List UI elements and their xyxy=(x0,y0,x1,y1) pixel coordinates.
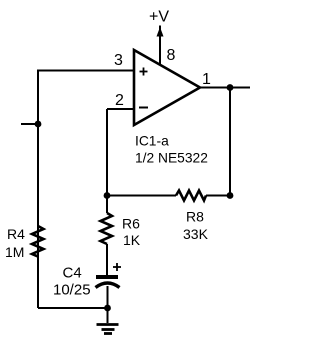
wire feedback vertical xyxy=(229,88,231,196)
svg-text:1/2 NE5322: 1/2 NE5322 xyxy=(135,151,208,166)
node junction dot output xyxy=(227,84,234,91)
wire left vertical xyxy=(37,70,39,309)
svg-text:IC1-a: IC1-a xyxy=(135,134,169,149)
op-amp - input marking xyxy=(139,107,148,109)
node junction dot left xyxy=(35,121,42,128)
wire output pin1 xyxy=(200,87,250,89)
wire pin2 (- input) xyxy=(107,108,134,110)
wire input stub xyxy=(21,123,38,125)
capacitor + sign xyxy=(113,263,121,271)
svg-text:1M: 1M xyxy=(5,244,24,260)
svg-text:1K: 1K xyxy=(123,232,141,248)
ground xyxy=(107,308,109,323)
svg-text:R4: R4 xyxy=(7,226,25,242)
wire node row y=195.5 xyxy=(107,195,176,197)
wire pin8 / +V arrow xyxy=(159,26,161,65)
wire pin2 vertical xyxy=(106,109,108,196)
svg-text:10/25: 10/25 xyxy=(53,282,91,299)
svg-text:R8: R8 xyxy=(186,209,204,225)
resistor R4 zigzag xyxy=(32,226,44,257)
svg-text:8: 8 xyxy=(167,47,176,64)
svg-text:R6: R6 xyxy=(122,216,140,232)
svg-text:3: 3 xyxy=(114,52,123,69)
op-amp U1 IC1-a triangle xyxy=(134,50,200,125)
node junction dot ground xyxy=(104,305,111,312)
resistor R6 xyxy=(106,196,108,214)
op-amp + input marking xyxy=(140,68,148,76)
svg-text:1: 1 xyxy=(202,71,211,88)
node junction dot feedback corner xyxy=(227,192,234,199)
node junction dot R6 top xyxy=(104,192,111,199)
wire bottom row xyxy=(38,307,108,309)
wire cap bottom xyxy=(107,286,109,308)
svg-text:C4: C4 xyxy=(63,265,82,282)
svg-text:2: 2 xyxy=(115,92,124,109)
capacitor C4 plates xyxy=(96,275,118,279)
svg-text:+V: +V xyxy=(149,9,169,26)
resistor R8 zigzag xyxy=(176,191,206,201)
svg-text:33K: 33K xyxy=(183,226,209,242)
wire pin3 (+ input) xyxy=(38,70,134,72)
